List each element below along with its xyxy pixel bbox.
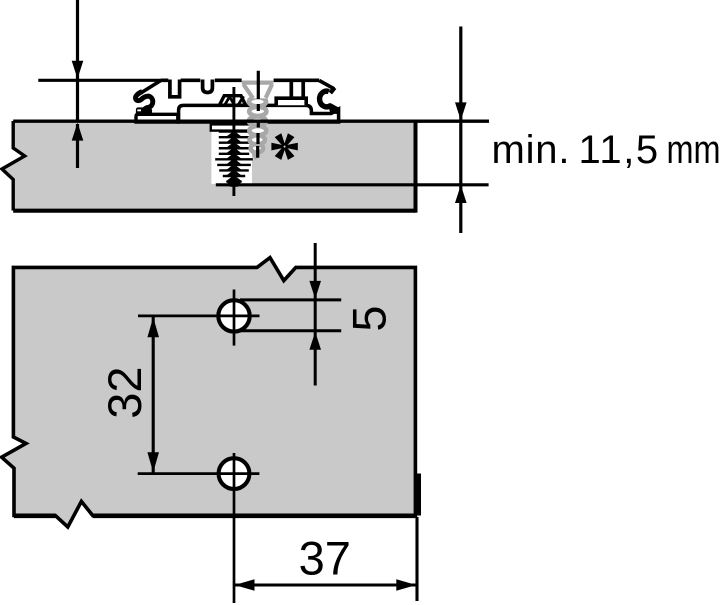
dimension 5 line [314, 243, 317, 386]
chipboard screw thread coil [249, 97, 267, 152]
chipboard screw head [242, 78, 274, 99]
dimension plate height: vertical line left [76, 0, 79, 121]
plan right edge extension line [415, 517, 418, 601]
drilled hole in board [211, 123, 252, 184]
board bottom edge [13, 209, 415, 213]
mounting plate right hook [320, 91, 339, 110]
mounting plate base strip left [136, 114, 178, 122]
dimension 32 up arrowhead [147, 317, 159, 337]
dimension min depth: down arrowhead [455, 102, 467, 120]
board cross-section (side view panel) [2, 120, 416, 213]
dimension 37 line [234, 583, 417, 586]
cam mound hatching [225, 96, 244, 104]
mounting plate cam mound [219, 96, 245, 106]
dimension 5 down arrowhead [309, 281, 321, 299]
board left break edge [2, 121, 25, 211]
dimension 5 up arrowhead [309, 332, 321, 350]
euro screw tip [227, 181, 242, 187]
lower system hole cross lines [138, 472, 260, 475]
lower system hole [219, 458, 250, 489]
dimension plate height: up arrowhead with tail [76, 124, 79, 168]
dimension 5 tangent lines [240, 298, 341, 301]
mounting plate U notch [203, 80, 213, 93]
chipboard screw tip [251, 146, 261, 158]
plan board right edge thick patch [417, 474, 421, 516]
drilling depth line [216, 183, 489, 186]
euro screw thread root wedges [226, 132, 243, 182]
mounting plate right beak [330, 88, 334, 93]
board panel gray body [2, 121, 416, 211]
dimension plate height: down arrowhead [72, 61, 84, 79]
svg-text:32: 32 [98, 366, 151, 418]
euro screw flange [211, 124, 258, 130]
mounting plate slot notch [170, 80, 180, 97]
upper system hole cross lines [138, 315, 260, 318]
mounting plate right bevel [319, 81, 334, 89]
mounting plate left bevel [142, 81, 161, 93]
mounting plate step box [276, 98, 306, 105]
chipboard screw center line [256, 71, 260, 158]
svg-text:min.: min. [492, 128, 571, 172]
dimension 37 right arrowhead [396, 579, 416, 591]
asterisk footnote mark [271, 133, 297, 160]
board right edge [414, 120, 418, 213]
mounting plate legs [289, 82, 293, 97]
svg-text:5: 5 [343, 305, 396, 331]
plan board bottom edge thick [93, 513, 416, 518]
board plan view [2, 258, 421, 527]
plan board gray body [2, 258, 416, 527]
mounting plate left foot [136, 107, 152, 113]
svg-text:mm: mm [667, 128, 720, 172]
mounting plate hook heel wedge [329, 107, 340, 114]
board top edge and extension line [13, 119, 489, 122]
dimension 32 line [152, 316, 155, 473]
mounting plate top edge segments [161, 79, 319, 83]
dimension plate height: extension line [38, 79, 161, 82]
dimension min depth: up arrowhead [455, 185, 467, 203]
svg-text:37: 37 [299, 531, 351, 584]
svg-text:11,5: 11,5 [579, 128, 660, 172]
euro screw thread crest lines [215, 132, 253, 182]
dimension min depth: vertical line right [459, 27, 462, 234]
mounting plate left curl [136, 92, 153, 112]
dimension 37 left arrowhead [235, 579, 255, 591]
mounting plate base center and right foot [179, 105, 339, 122]
euro screw center line [232, 87, 235, 196]
upper system hole [218, 300, 249, 331]
dimension 32 down arrowhead [147, 452, 159, 472]
